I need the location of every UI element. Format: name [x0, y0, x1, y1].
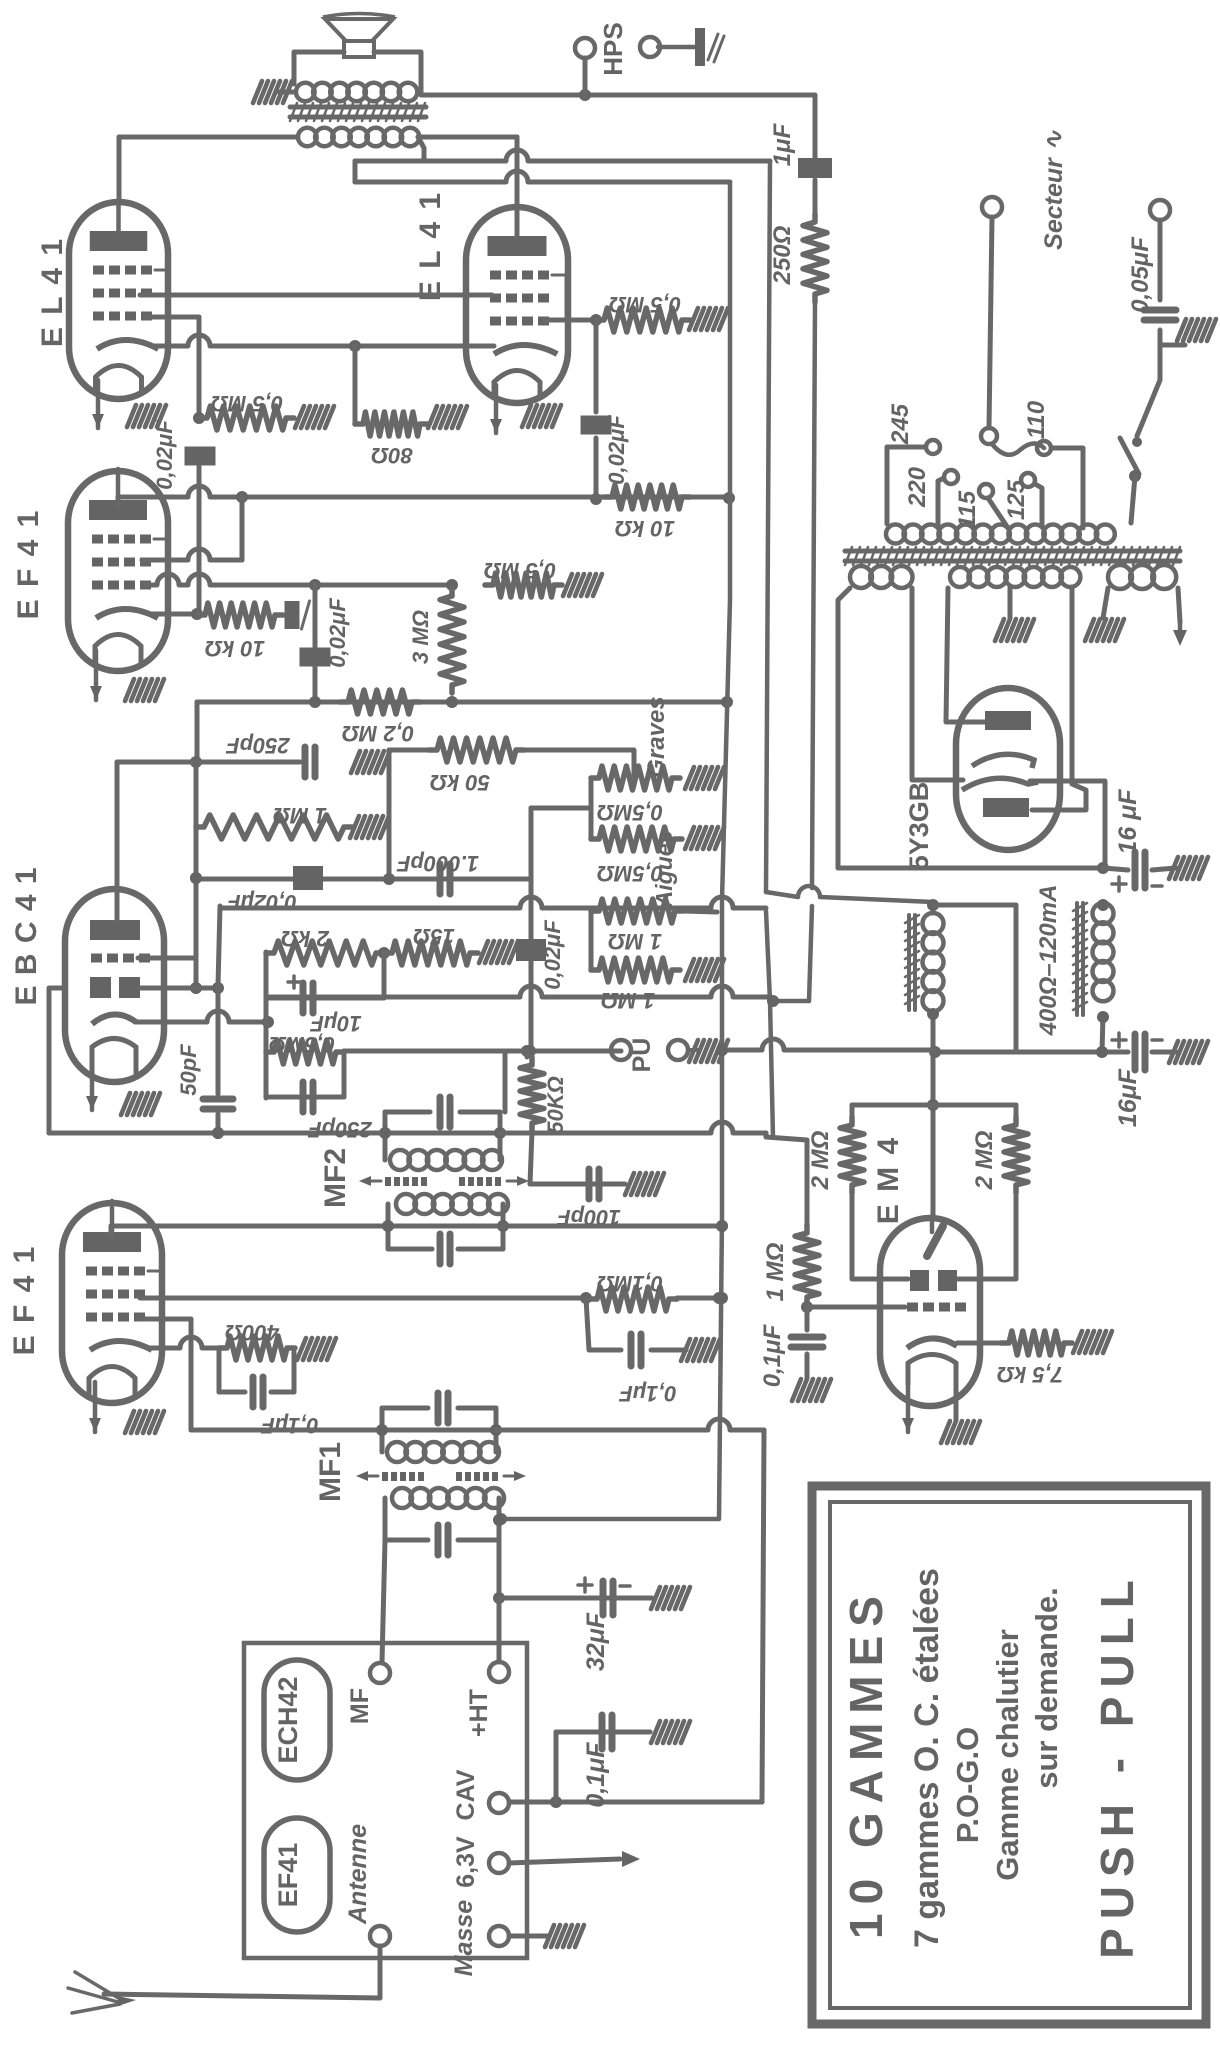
svg-text:1 MΩ: 1 MΩ — [762, 1242, 789, 1301]
wire cap to 702 line — [313, 667, 318, 702]
wire graves-aigues link — [589, 778, 594, 839]
svg-text:0,1μF: 0,1μF — [582, 1742, 610, 1808]
terminal Antenne — [370, 1926, 390, 1946]
wire cav cap row — [556, 1730, 650, 1735]
heater arrow EF41 no1 — [90, 650, 102, 700]
resistor 1M ebc grid leak — [196, 815, 352, 839]
svg-text:Masse: Masse — [450, 1900, 478, 1977]
svg-text:Antenne: Antenne — [344, 1824, 372, 1925]
label Antenne — [344, 1824, 372, 1925]
capacitor MF2 bottom — [440, 1234, 450, 1264]
ground EL41 no1 cathode — [127, 405, 166, 427]
power transformer primary — [886, 525, 1115, 544]
node choke left top — [927, 899, 939, 911]
wire 50pF drop — [216, 988, 221, 1094]
wire avc corner — [766, 1133, 807, 1225]
svg-text:sur demande.: sur demande. — [1029, 1587, 1064, 1789]
heater arrow EBC41 — [86, 1074, 98, 1110]
wire 2M left to target — [852, 1193, 908, 1279]
wire 10uF row — [266, 996, 384, 1001]
wire HT rail 868 — [838, 862, 1109, 874]
tube EBC41 — [65, 887, 164, 1082]
primary frame ground — [253, 81, 292, 103]
node HT 1520 — [493, 1514, 505, 1526]
wire trunk B — [762, 1430, 764, 1802]
capacitor 0,1uF cav — [602, 1715, 612, 1749]
wire 50k vol bottom — [530, 1131, 532, 1184]
node choke right top — [1097, 899, 1109, 911]
wire em4 bracket top — [852, 1103, 1016, 1108]
svg-text:P.O-G.O: P.O-G.O — [950, 1727, 985, 1844]
wire em4 grid line — [807, 1305, 905, 1310]
node choke right bottom — [1097, 1011, 1109, 1023]
wire EF41no2 cathode — [150, 1337, 219, 1348]
arrow heater supply — [1173, 622, 1187, 646]
resistor 7,5k em4 — [1001, 1331, 1072, 1355]
svg-text:0,2 MΩ: 0,2 MΩ — [342, 721, 414, 746]
label EF41 conv — [273, 1843, 303, 1908]
wire grid drop — [197, 317, 202, 418]
wire EF41no2 plate stub — [109, 1226, 114, 1237]
label 220 — [904, 466, 931, 508]
svg-text:1 MΩ: 1 MΩ — [601, 988, 655, 1013]
output transformer secondary coil — [298, 128, 419, 147]
wire EF41 plate stub — [116, 497, 121, 507]
terminal secteur left — [982, 197, 1002, 217]
wire 250pF av row — [266, 1095, 344, 1100]
resistor 80ohm cathode — [355, 412, 428, 436]
wire plate line EF41no2 — [111, 1220, 509, 1232]
ground 1M grid leak — [350, 816, 389, 838]
svg-text:E B C 4 1: E B C 4 1 — [10, 866, 43, 1005]
label EM4 — [872, 1136, 905, 1224]
node 2k right — [378, 947, 390, 959]
svg-text:250pF: 250pF — [308, 1117, 373, 1142]
node trunk A screen — [716, 1292, 728, 1304]
svg-text:400Ω–120mA: 400Ω–120mA — [1035, 885, 1062, 1037]
core choke left — [905, 915, 919, 1010]
terminal 6,3V — [489, 1853, 509, 1873]
node EL41 no2 grid — [590, 314, 602, 326]
text sur demande — [1029, 1587, 1064, 1789]
svg-text:125: 125 — [1003, 479, 1030, 520]
wire MF2 bot tank bottom — [388, 1247, 432, 1252]
tube EL41 no2 — [466, 205, 568, 403]
svg-text:PUSH - PULL: PUSH - PULL — [1091, 1571, 1143, 1959]
heater lead arrow EL41 no1 — [92, 380, 104, 428]
svg-text:0,1MΩ: 0,1MΩ — [597, 1271, 663, 1296]
wire 0,1uF row b — [271, 1390, 294, 1395]
node volume top — [524, 1045, 536, 1057]
wire 0,5M right riser — [342, 1051, 347, 1052]
svg-text:E F 4 1: E F 4 1 — [12, 509, 45, 620]
wire em4 cathode lead — [957, 1341, 1001, 1346]
wire MF2 top tank left — [383, 1112, 388, 1160]
label 10k upper — [615, 516, 675, 541]
wire heater winding right — [1178, 588, 1180, 622]
heater arrow EM4 — [902, 1385, 914, 1432]
svg-text:6,3V: 6,3V — [452, 1836, 480, 1888]
plus sign 32uF — [578, 1578, 630, 1592]
svg-text:245: 245 — [887, 403, 914, 445]
label 5Y3GB — [904, 782, 934, 871]
ground 0,1uF cav — [651, 1721, 690, 1743]
node 250pF junction — [190, 756, 202, 768]
node EF41 cathode — [191, 608, 203, 620]
terminal CAV — [489, 1793, 509, 1813]
node coupling junction — [590, 493, 602, 505]
wire volume top line — [344, 1045, 621, 1057]
capacitor 0,02uF ebc grid — [293, 866, 323, 890]
capacitor MF1 top — [438, 1393, 448, 1423]
ground masse — [545, 1925, 584, 1947]
label 0,5M graves — [597, 800, 663, 825]
wire 16uF1 gnd lead — [1152, 868, 1176, 870]
ground 100pF — [625, 1173, 664, 1195]
5Y3 filament winding — [850, 566, 913, 588]
svg-text:3 MΩ: 3 MΩ — [408, 610, 433, 664]
ground 7,5k — [1073, 1331, 1112, 1353]
svg-text:5Y3GB: 5Y3GB — [904, 782, 934, 871]
wire em4 anode feed — [931, 1014, 936, 1216]
ground EF41 no1 heater — [125, 679, 164, 701]
wire 6,3V lead — [509, 1859, 620, 1863]
ground EF41 no2 heater — [125, 1411, 164, 1433]
label 115 — [954, 490, 981, 529]
node 32uF — [493, 1592, 505, 1604]
wire trunk Bplus — [766, 161, 773, 1137]
speaker — [323, 14, 395, 42]
wire avc rail 1133 — [500, 1122, 766, 1133]
resistor 15ohm — [384, 941, 478, 965]
ground 80ohm — [428, 406, 467, 428]
label 0,5M no2 — [609, 292, 681, 317]
resistor 0,1M screen — [589, 1287, 677, 1311]
label MF — [346, 1688, 374, 1724]
wire MF1 bot tank bottom b — [458, 1538, 499, 1543]
wire HV right leg — [1032, 587, 1086, 810]
label Aigues — [651, 831, 677, 909]
svg-text:0,05μF: 0,05μF — [1127, 236, 1154, 313]
svg-text:10 kΩ: 10 kΩ — [615, 516, 675, 541]
wire vol to MF2 — [505, 1049, 527, 1054]
svg-text:50KΩ: 50KΩ — [543, 1076, 568, 1134]
label CAV — [452, 1769, 480, 1820]
capacitor 0,02uF EL41 no2 — [581, 416, 612, 435]
svg-text:1.000pF: 1.000pF — [396, 851, 478, 876]
label 0,5M no1 — [211, 391, 283, 416]
label 100pF — [557, 1205, 621, 1230]
potentiometer 0,5M Graves — [591, 766, 680, 790]
capacitor 10uF — [303, 983, 313, 1013]
wire 196 drop — [194, 762, 199, 988]
wire cath box — [217, 1348, 222, 1392]
choke left — [923, 913, 944, 1011]
node em4 top bracket — [927, 1099, 939, 1111]
capacitor 16uF no1 — [1135, 852, 1145, 888]
wire 1uF to 250ohm — [813, 180, 818, 214]
wire tap 125 — [1035, 484, 1042, 526]
label +HT — [465, 1689, 493, 1737]
wire 16uF2 gnd lead — [1152, 1050, 1176, 1055]
pill ECH42 — [264, 1660, 330, 1780]
wire EBC41 grid lead — [138, 956, 196, 961]
label 400ohm 120mA — [1035, 885, 1062, 1037]
label 0,02uF ebc — [227, 890, 297, 915]
tap 245 — [926, 440, 940, 454]
resistor 0,5M volume — [266, 1040, 344, 1064]
ground EBC41 heater — [121, 1093, 160, 1115]
svg-text:32μF: 32μF — [582, 1612, 610, 1671]
label 80ohm — [371, 443, 413, 468]
node EL41 no1 grid junction — [193, 412, 205, 424]
wire grid drop EF41no2 — [189, 1319, 194, 1430]
label 50pF — [176, 1044, 201, 1096]
label 10uF — [310, 1011, 362, 1036]
antenna symbol — [68, 1972, 136, 2013]
wire EL41 no1 plate drop — [117, 137, 122, 204]
core choke right 400ohm — [1073, 903, 1087, 1015]
tap 115 — [979, 484, 993, 498]
svg-text:ECH42: ECH42 — [273, 1676, 303, 1763]
resistor 250ohm — [803, 214, 827, 302]
label 250pF av — [308, 1117, 373, 1142]
svg-text:PU: PU — [628, 1038, 656, 1073]
wire mains left — [989, 217, 992, 428]
capacitor MF1 bottom — [438, 1525, 448, 1555]
wire bias row 997 — [268, 986, 770, 997]
box 10 gammes outer — [812, 1486, 1206, 2024]
wire 250pF-0,5M link — [342, 1052, 347, 1097]
svg-text:80Ω: 80Ω — [371, 443, 413, 468]
svg-text:Graves: Graves — [643, 696, 670, 777]
wire cav cap riser — [554, 1732, 559, 1802]
plus sign 16uF2 — [1112, 1033, 1162, 1047]
power transformer core — [845, 547, 1180, 565]
svg-text:0,02μF: 0,02μF — [227, 890, 297, 915]
svg-text:400Ω: 400Ω — [225, 1320, 280, 1345]
svg-text:250Ω: 250Ω — [769, 225, 796, 285]
tap 220 — [944, 470, 958, 484]
label 0,1uF screen — [619, 1381, 677, 1406]
wire EBC41 plate riser — [115, 762, 120, 921]
wire 2M right drop — [1014, 1105, 1019, 1117]
wire 32uF row — [499, 1596, 652, 1601]
wire wiper link — [531, 806, 591, 811]
potentiometer 0,5M Aigues — [591, 827, 682, 851]
label 110 — [1023, 400, 1050, 439]
choke 400ohm 120mA — [1093, 903, 1114, 1001]
resistor 2k — [266, 941, 384, 965]
wire cap drop — [197, 467, 202, 614]
wire MF2 top tank top — [385, 1110, 430, 1115]
label 0,5M volume — [269, 1032, 335, 1057]
wire OPT secondary right to EL41 no2 plate — [418, 135, 517, 140]
wire MF2 out to trunk — [503, 1220, 728, 1232]
svg-text:CAV: CAV — [452, 1769, 480, 1820]
capacitor 50pF — [203, 1099, 233, 1109]
label 0,1uF cathode — [261, 1413, 319, 1438]
wire MF2 top tank right — [498, 1112, 503, 1160]
wire wiper to volume — [529, 960, 534, 1051]
wire grid to MF1 — [191, 1428, 382, 1433]
HV winding — [950, 567, 1080, 587]
wire avc to psu — [716, 1039, 935, 1056]
wire HPS stub — [583, 58, 588, 95]
switch mains — [1120, 437, 1142, 482]
wire HV left leg — [946, 588, 986, 722]
ground 1M fb — [685, 959, 724, 981]
wire EF41no2 grid row — [140, 1317, 191, 1322]
text gamme chalutier — [990, 1629, 1025, 1881]
wire 5Y3 cathode out — [1030, 781, 1105, 866]
label 16uF no1 — [1114, 789, 1142, 855]
node cathode rail — [262, 1016, 274, 1028]
wire cathode bus EL41 — [152, 335, 494, 352]
node 1001 — [767, 995, 779, 1007]
wire mains cap stub — [1160, 330, 1185, 345]
label 10k cathode — [205, 636, 265, 661]
wire detector rail 1133 — [49, 1127, 385, 1139]
text 7 gammes — [908, 1568, 946, 1948]
tube EM4 — [880, 1216, 980, 1406]
heater lead arrow EL41 no2 — [490, 385, 502, 433]
terminal HPS live — [575, 38, 595, 58]
text POGO — [950, 1727, 985, 1844]
node choke left bottom — [927, 1008, 939, 1020]
wire MF1 bot tank bottom — [385, 1538, 428, 1543]
label 15ohm — [413, 924, 455, 949]
wire EF41 plate line — [118, 486, 735, 504]
node trunk A pu — [716, 1044, 728, 1056]
svg-text:HPS: HPS — [598, 22, 628, 75]
label 2M right — [971, 1130, 998, 1190]
resistor 0,5M EL41 no2 grid — [596, 308, 690, 332]
ground aigues — [685, 827, 724, 849]
wire choke left bottom — [931, 1012, 936, 1016]
svg-text:10 GAMMES: 10 GAMMES — [840, 1587, 892, 1939]
svg-text:0,1μF: 0,1μF — [261, 1413, 319, 1438]
resistor 3M — [440, 588, 464, 693]
wire 2k to 10uF — [382, 953, 387, 998]
svg-text:0,02μF: 0,02μF — [540, 920, 565, 990]
resistor 50k volume — [520, 1057, 544, 1131]
terminal MF — [370, 1663, 390, 1683]
resistor 2M right — [1004, 1117, 1028, 1193]
wire trunk 1uF — [813, 95, 818, 160]
node trunk A ht — [495, 1513, 507, 1525]
resistor 1M fb upper — [591, 899, 683, 923]
wire OPT secondary left to EL41 plate — [119, 135, 296, 140]
wire 250ohm down — [773, 302, 815, 1001]
tap 110 — [1037, 441, 1051, 455]
svg-text:0,1μF: 0,1μF — [619, 1381, 677, 1406]
capacitor 250pF av — [303, 1082, 313, 1112]
ground 0,5M EF41 — [563, 574, 602, 596]
label 7,5k — [997, 1362, 1063, 1387]
ground 0,5M no1 — [295, 406, 334, 428]
wire cap to EF41 cathode — [197, 467, 202, 487]
svg-text:15Ω: 15Ω — [413, 924, 455, 949]
capacitor 100pF — [589, 1169, 599, 1199]
wire rail through MF2 — [379, 1127, 506, 1139]
label MF1 — [314, 1442, 347, 1502]
ground PU — [688, 1048, 698, 1052]
ground 250pF — [351, 751, 390, 773]
ground 16uF no1 — [1169, 857, 1208, 879]
capacitor 32uF — [603, 1581, 613, 1615]
tube EF41 no2 — [62, 1201, 162, 1403]
wire screen bus EL41 — [140, 293, 492, 298]
node 50pF rail — [212, 1127, 224, 1139]
wire grid leak drop — [194, 827, 199, 858]
wire antenne lead — [104, 1946, 380, 1998]
label 1000pF — [396, 851, 478, 876]
wire 5Y3 box left — [838, 588, 850, 868]
resistor 0,2M — [340, 690, 420, 714]
capacitor 0,1uF screen — [631, 1334, 641, 1366]
wire screen to plate line — [240, 497, 245, 560]
capacitor 0,02uF tone — [516, 939, 546, 961]
wire 702 corner down — [195, 702, 200, 762]
label Graves — [643, 696, 670, 777]
coil MF2 secondary — [390, 1150, 502, 1170]
wire 50k to graves — [524, 750, 634, 776]
resistor 10k plate EF41 area — [604, 485, 690, 509]
wire EBC41 cathode lead — [135, 1011, 268, 1022]
wire ladder left rail — [264, 952, 269, 1098]
wire 250pF line — [117, 760, 300, 765]
wire rail through MF1 — [376, 1424, 502, 1436]
coil MF1 primary — [392, 1488, 504, 1508]
label 0,05uF — [1127, 236, 1154, 313]
ground avc cap — [792, 1379, 831, 1401]
wire coupling cap to plate line — [594, 438, 599, 499]
capacitor 1000pF — [440, 864, 450, 894]
svg-text:250pF: 250pF — [226, 733, 291, 758]
plus sign 10uF — [288, 976, 300, 988]
wire 50k lead — [389, 748, 429, 753]
label 3M — [408, 610, 433, 664]
label EL41 no1 — [36, 237, 69, 347]
svg-text:110: 110 — [1023, 400, 1050, 439]
label ECH42 — [273, 1676, 303, 1763]
svg-text:Aiguës: Aiguës — [651, 831, 677, 909]
svg-text:50 kΩ: 50 kΩ — [430, 770, 490, 795]
terminal HPS return — [640, 37, 660, 57]
label Secteur — [1040, 129, 1068, 250]
wire EF41 cathode — [152, 612, 197, 617]
capacitor 0,05uF mains — [1144, 310, 1176, 320]
output transformer core — [290, 103, 426, 121]
svg-text:2 MΩ: 2 MΩ — [971, 1130, 998, 1190]
wire OPT to HPS and 1uF — [421, 89, 815, 101]
ground 0,5M no2 — [689, 308, 728, 330]
wire diode to 50pF — [140, 986, 218, 991]
wire MF1 top tank top b — [458, 1406, 496, 1411]
label EF41 no2 — [8, 1245, 41, 1356]
wire 100pF row — [530, 1182, 625, 1187]
svg-text:2 MΩ: 2 MΩ — [807, 1130, 834, 1190]
svg-text:2 kΩ: 2 kΩ — [281, 926, 330, 951]
label 50k volume — [543, 1076, 568, 1134]
svg-text:MF2: MF2 — [319, 1148, 352, 1208]
svg-text:0,5MΩ: 0,5MΩ — [597, 800, 663, 825]
ground EL41 no2 cathode — [522, 405, 561, 427]
wire coupling cap drop — [594, 320, 599, 412]
arrow 6,3V heaters — [622, 1851, 640, 1867]
svg-text:MF1: MF1 — [314, 1442, 347, 1502]
